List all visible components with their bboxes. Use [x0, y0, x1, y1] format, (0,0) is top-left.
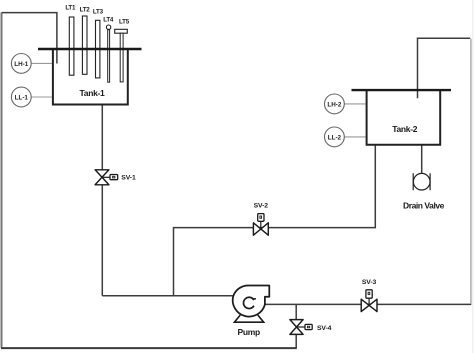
- instrument LH-1: [11, 54, 52, 74]
- svg-text:LH-1: LH-1: [14, 61, 28, 68]
- valve SV-4: [290, 320, 332, 335]
- wire SV-2 branch: [174, 145, 376, 296]
- wire bottom return line: [1, 347, 297, 349]
- wire right edge riser (faded): [470, 39, 472, 304]
- tank Tank-2: [352, 90, 452, 145]
- instrument LL-2: [325, 127, 366, 147]
- valve SV-2: [253, 202, 268, 235]
- svg-text:Tank-1: Tank-1: [80, 88, 106, 98]
- level probe LT5: [115, 19, 130, 82]
- svg-text:Pump: Pump: [237, 327, 260, 337]
- svg-text:LH-2: LH-2: [327, 101, 341, 108]
- valve SV-3: [361, 279, 377, 312]
- wire top-left inlet to Tank-1: [2, 13, 57, 64]
- level probe LT1: [65, 5, 76, 76]
- instrument LL-1: [11, 87, 52, 107]
- svg-text:Drain Valve: Drain Valve: [403, 200, 445, 210]
- svg-text:LT3: LT3: [93, 9, 104, 16]
- pump P-1: [233, 285, 270, 336]
- valve SV-1: [95, 170, 136, 185]
- wire Tank-1 outlet down through SV-1: [101, 105, 103, 296]
- svg-text:LT1: LT1: [65, 5, 76, 12]
- svg-text:SV-3: SV-3: [362, 279, 377, 286]
- level probe LT3: [93, 9, 104, 78]
- wire left recirculation line: [1, 13, 3, 348]
- wire SV-4 branch: [295, 304, 297, 348]
- svg-text:LL-2: LL-2: [328, 134, 342, 141]
- svg-text:LL-1: LL-1: [15, 95, 29, 102]
- svg-text:LT2: LT2: [80, 7, 91, 14]
- level probe LT4: [103, 17, 114, 83]
- instrument LH-2: [325, 94, 366, 114]
- wire pump discharge to Tank-2: [264, 38, 471, 304]
- svg-text:SV-2: SV-2: [254, 202, 269, 209]
- svg-text:LT5: LT5: [119, 19, 130, 26]
- svg-text:Tank-2: Tank-2: [392, 124, 418, 134]
- svg-text:SV-1: SV-1: [121, 175, 136, 182]
- svg-text:LT4: LT4: [103, 17, 114, 24]
- canvas right edge: [472, 0, 474, 353]
- level probe LT2: [80, 7, 91, 75]
- svg-text:SV-4: SV-4: [317, 325, 332, 332]
- wire Tank-2 drain pipe: [421, 145, 423, 177]
- wire pump suction line: [102, 295, 235, 297]
- tank Tank-1: [38, 49, 142, 105]
- drain valve: [403, 173, 445, 210]
